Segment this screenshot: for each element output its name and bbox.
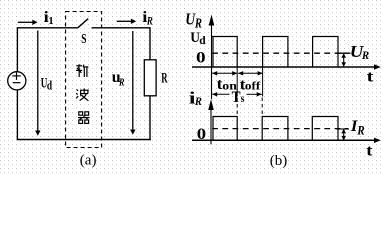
UR level tick: [337, 52, 351, 54]
ton toff boundary vertical at 262.6: [262, 67, 264, 97]
voltage arrow uR: [130, 31, 135, 135]
svg-text:(a): (a): [80, 152, 97, 168]
chopper char bo: [76, 88, 89, 100]
ton measure arrow: [212, 71, 237, 75]
svg-text:d: d: [199, 34, 206, 47]
svg-text:0: 0: [197, 124, 207, 142]
IR dashed average line: [212, 128, 348, 130]
voltage source plus sign: [12, 72, 20, 80]
svg-text:1: 1: [48, 16, 53, 27]
svg-text:S: S: [81, 30, 87, 46]
Ud dashed average line: [212, 52, 348, 54]
wire left vertical upper: [16, 28, 18, 72]
svg-text:R: R: [146, 16, 153, 28]
voltage source E circle: [8, 72, 26, 90]
svg-text:R: R: [118, 77, 124, 88]
svg-text:t: t: [367, 68, 374, 85]
svg-text:0: 0: [196, 48, 206, 66]
wire top right segment: [92, 27, 151, 29]
svg-text:d: d: [47, 79, 53, 93]
iR axis vertical: [210, 104, 212, 144]
IR level tick: [337, 128, 350, 130]
chopper char qi: [78, 112, 90, 124]
dashed drop line at ton edge: [236, 98, 238, 117]
current arrow iR: [117, 19, 136, 24]
UR measure double arrow: [341, 53, 346, 67]
chopper char zhan: [76, 64, 88, 77]
wire bottom: [17, 139, 151, 141]
ton toff boundary vertical at 237: [236, 67, 238, 97]
IR measure double arrow: [341, 129, 346, 141]
Ts measure arrow: [212, 92, 262, 96]
iR axis arrowhead: [208, 99, 214, 110]
t axis bottom: [192, 138, 381, 143]
dashed drop line at period edge: [261, 98, 263, 117]
voltage arrow Ud: [35, 31, 40, 136]
background dotted grid: [0, 0, 384, 174]
t axis top: [192, 64, 381, 69]
UR axis vertical with measure extension: [211, 20, 213, 99]
svg-text:off: off: [245, 79, 261, 92]
svg-text:R: R: [361, 50, 370, 63]
svg-text:R: R: [356, 123, 364, 138]
voltage source minus sign: [13, 82, 21, 84]
current arrow i1: [18, 20, 38, 25]
chopper dashed box: [66, 12, 102, 148]
svg-text:T: T: [232, 89, 241, 106]
iR pulse waveform: [213, 117, 338, 141]
toff measure arrow: [238, 71, 263, 75]
svg-text:s: s: [241, 92, 245, 105]
UR axis arrowhead: [209, 15, 215, 26]
svg-text:(b): (b): [270, 153, 288, 169]
svg-text:R: R: [194, 96, 202, 109]
resistor R box: [144, 60, 156, 96]
wire top left segment: [17, 27, 78, 29]
wire right vertical upper: [149, 27, 151, 60]
wire right vertical lower: [149, 96, 151, 140]
uR pulse waveform: [212, 37, 339, 68]
svg-text:t: t: [366, 142, 372, 160]
wire left vertical lower: [16, 90, 18, 140]
switch S blade: [78, 19, 88, 28]
svg-text:R: R: [161, 69, 167, 86]
